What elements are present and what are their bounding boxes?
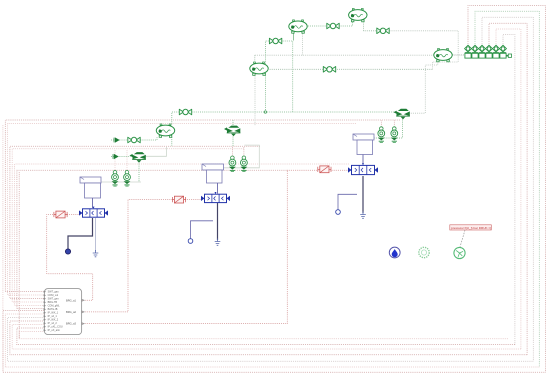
wire feed to valve SV2b — [243, 147, 245, 156]
svg-text:IP_uX_atm: IP_uX_atm — [48, 329, 60, 332]
wire vessel O4 top riser — [254, 55, 256, 62]
drain port circle B3 — [336, 210, 341, 215]
controller U1 output labels — [66, 298, 77, 325]
wire control BRG_a1 from controller to pilot valve R1 — [47, 215, 93, 301]
wire A2 e-link — [224, 145, 260, 168]
drain port circle B1 — [65, 249, 70, 254]
condenser O3 — [434, 49, 452, 62]
wire cylinder Z1 to manifold M1 — [92, 198, 94, 208]
wire sensor line S3 to controller — [10, 146, 260, 298]
wire bottom wrap 2 — [5, 314, 539, 367]
wire bottom wrap 7 — [19, 332, 508, 339]
separator manifold bar — [465, 55, 512, 57]
valve VB — [377, 28, 389, 34]
separator manifold end cap — [508, 54, 511, 57]
wire P1 e-link — [141, 147, 167, 156]
separator valve V5 — [493, 45, 500, 57]
wire feed to valve SV3b — [393, 121, 395, 128]
annotation label pressure — [450, 225, 492, 230]
wire bottom wrap 3 — [8, 318, 534, 362]
wire header y55 to separator manifold — [255, 54, 464, 56]
wire sensor line S5 to controller — [15, 164, 349, 306]
wire compressor K2 to valve VB — [364, 22, 377, 31]
solenoid valve SV2a — [229, 156, 236, 172]
wire bus loop 5 — [496, 29, 521, 349]
wire valve VC outlet drop — [281, 41, 293, 112]
wire feed to valve SV1a — [114, 150, 116, 171]
wire feed to valve SV3a — [380, 121, 382, 128]
wire condenser O3 to separator manifold — [453, 54, 465, 56]
separator valve V1 — [465, 45, 472, 57]
pilot valve R3 — [318, 166, 331, 173]
separator valve V3 — [479, 45, 486, 57]
wire left outer vertical — [2, 125, 4, 372]
pilot valve R2 — [172, 196, 185, 203]
wire valve VG inlet stub — [111, 139, 128, 141]
compressor K2 — [349, 9, 367, 22]
wire drain Z2 — [217, 203, 219, 240]
gauge fan W3 — [454, 247, 465, 258]
valve VD — [323, 67, 335, 73]
wire cylinder Z2 to manifold M2 — [217, 183, 219, 194]
drain port circle B2 — [188, 239, 193, 244]
pilot valve R1 — [54, 211, 67, 218]
wire left inner vertical — [18, 172, 20, 339]
wire compressor K1 left foot drop — [293, 34, 295, 41]
wire bottom wrap 5 — [12, 325, 521, 350]
wire valve VB to condenser loop — [389, 31, 458, 70]
wire bottom wrap 6 — [17, 328, 515, 345]
controller U1 input labels — [48, 291, 63, 333]
separator valve V4 — [486, 45, 493, 57]
wire drain stub Z1 — [95, 218, 97, 251]
wire drain branch Z3 — [338, 194, 357, 209]
wire sensor line S2 to controller — [8, 124, 356, 296]
wire valve VA to compressor K2 — [336, 22, 352, 27]
wire drain branch Z2 — [191, 221, 214, 239]
wire control BRG_a3 from controller to pilot valve R3 — [82, 170, 319, 323]
gauge water drop W1 — [389, 247, 400, 258]
wire bus loop 2 — [475, 11, 539, 367]
svg-text:BRG_a1: BRG_a1 — [66, 298, 77, 302]
wire drain Z3 — [362, 176, 364, 213]
manifold M2 — [201, 192, 230, 203]
solenoid valve SV1b — [124, 171, 131, 187]
controller U1 input pins — [44, 291, 47, 332]
valve VF — [179, 109, 191, 115]
wire vessel O5 bottom drop — [171, 137, 173, 146]
wire sensor line S4 to controller — [12, 149, 244, 302]
wire pump P3 drop to valves SV3 — [374, 120, 403, 139]
wire bus loop 6 — [503, 35, 515, 345]
wire valve VC left riser — [265, 41, 271, 112]
ground A2 — [215, 239, 221, 246]
wire pilot valve R1 to manifold M1 — [67, 214, 79, 216]
cylinder Z2 — [202, 164, 224, 183]
wire bus loop 1 (valve V1 to perimeter) — [468, 6, 546, 373]
wire vessel O4 bottom drop — [254, 76, 256, 127]
separator outlet squares — [465, 53, 506, 58]
wire pilot valve R2 to manifold M2 — [185, 199, 202, 201]
wire pump P2 outlet drop — [232, 137, 234, 148]
wire compressor K1 outlet to valve VA — [308, 25, 330, 27]
wire pump P1 inlet stub — [111, 156, 131, 158]
solenoid valve SV1a — [112, 171, 119, 187]
pump P2 — [224, 126, 240, 137]
wire label leader — [460, 230, 465, 247]
wire bus loop 3 — [482, 17, 533, 361]
controller U1 output pins — [82, 299, 84, 324]
pump P3 — [394, 109, 410, 120]
wire cylinder Z3 to manifold M3 — [362, 155, 364, 165]
valve VG — [128, 137, 140, 143]
wire feed to valve SV2a — [231, 147, 233, 156]
wire pilot valve R3 to manifold M3 — [331, 169, 349, 171]
solenoid valve SV3b — [391, 127, 398, 143]
vessel O4 — [250, 62, 268, 75]
wire pump P2 top stub — [232, 120, 234, 125]
wire compressor K1 right foot drop — [302, 34, 304, 56]
wire bus loop 4 — [489, 23, 527, 355]
solenoid valve SV3a — [378, 127, 385, 143]
svg-text:BRG_a3: BRG_a3 — [66, 322, 77, 326]
wire A1 e-link — [101, 181, 141, 183]
node junction J1 — [264, 111, 266, 113]
wire suction line y112 to pump P3 — [192, 111, 395, 113]
wire bottom wrap 4 — [10, 321, 527, 355]
ground A3 — [360, 212, 366, 219]
compressor K1 — [289, 20, 307, 33]
vessel O5 — [156, 124, 174, 137]
svg-text:pressure=f(U_f) bar DRUK =[: pressure=f(U_f) bar DRUK =[ — [451, 226, 491, 230]
svg-text:BRG_a2: BRG_a2 — [66, 310, 77, 314]
wire pump P3 outlet riser to condenser O3 — [411, 61, 438, 113]
separator valve V2 — [472, 45, 479, 57]
wire sensor line S6 to controller — [17, 170, 287, 308]
wire drain Z1 — [68, 218, 93, 249]
gauge fan W2 — [419, 247, 429, 257]
wire feed to valve SV1b — [126, 150, 128, 171]
cylinder Z3 — [353, 134, 374, 155]
wire valve VF inlet riser from vessel O5 — [172, 112, 180, 126]
arrow source into VG — [114, 138, 119, 143]
wire pump P1 outlet drop — [138, 164, 140, 182]
manifold M3 — [348, 163, 378, 174]
controller block U1 — [44, 289, 81, 335]
wire bottom wrap 1 — [3, 311, 546, 373]
ground A1 — [93, 250, 99, 257]
pump P1 — [130, 152, 146, 163]
cylinder Z1 — [80, 177, 101, 198]
manifold M1 — [79, 207, 108, 218]
separator valve V6 — [500, 45, 507, 57]
wire line y69 to valve VD and vessel O4 — [269, 68, 433, 70]
wire sensor line S1 to controller — [5, 120, 400, 292]
arrow source into P1 — [113, 154, 118, 159]
valve VA — [327, 23, 339, 29]
valve VC — [269, 38, 281, 44]
solenoid valve SV2b — [241, 156, 248, 172]
wire valve VG outlet to vessel O5 — [140, 137, 157, 140]
wire control BRG_a2 from controller to pilot valve R2 — [82, 200, 173, 312]
